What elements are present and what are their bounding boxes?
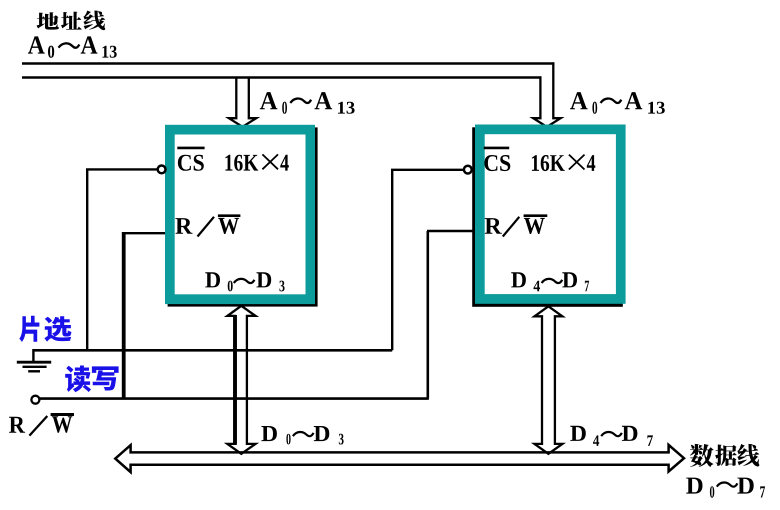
label chip1 R/W	[175, 218, 239, 234]
label chip2 CS	[484, 155, 510, 171]
memory chip U2 body 16Kx4	[475, 125, 626, 304]
label data bus D4~D7	[570, 426, 653, 446]
label chip2 CS overline	[484, 147, 509, 150]
memory chip U1 body 16Kx4	[165, 125, 315, 304]
wire chip1 R/W stub	[123, 232, 166, 234]
label chip1 CS	[178, 155, 204, 171]
label chip2 R/W	[485, 218, 545, 234]
label chip-select (Chinese, blue)	[19, 316, 39, 342]
label address-lines title (Chinese)	[37, 12, 59, 29]
node R/W input terminal circle	[31, 396, 39, 404]
wire data bus double arrow	[115, 445, 684, 472]
wire chip-select horizontal net	[33, 349, 392, 352]
wire address bus line 2	[22, 76, 541, 78]
memory chip U2 shadow	[472, 127, 623, 306]
wire chip1 R/W vertical thick	[122, 232, 126, 399]
memory chip U1 shadow	[168, 127, 318, 306]
label address lines A0~A13 top-left	[28, 36, 117, 57]
label D0~D7 bottom-right	[686, 478, 765, 498]
label chip1 16Kx4	[225, 155, 288, 171]
label R/W bottom-left	[9, 416, 72, 433]
node chip1 CS bubble	[158, 166, 166, 174]
label chip1 A0~A13	[260, 92, 355, 114]
label chip2 A0~A13	[570, 92, 665, 114]
node chip2 CS bubble	[464, 166, 472, 174]
ground	[17, 349, 51, 371]
label chip1 CS overline	[177, 147, 204, 150]
label data-lines title (Chinese)	[690, 444, 714, 467]
label chip2 16Kx4	[532, 155, 595, 171]
wire read-write horizontal net	[40, 397, 429, 400]
wire chip2 R/W vertical	[426, 231, 429, 399]
label chip1 D0~D3	[205, 272, 284, 291]
wire chip1 CS net	[87, 169, 157, 350]
wire chip1 address drop with open arrow	[229, 77, 256, 127]
wire address bus line 1	[22, 62, 554, 64]
wire chip2 data double-arrow	[535, 306, 563, 454]
wire chip2 CS net	[392, 170, 463, 350]
wire chip2 address drop with open arrow	[533, 62, 560, 126]
wire chip2 R/W stub	[427, 230, 475, 232]
label read-write (Chinese, blue)	[65, 366, 91, 393]
wire chip1 data double-arrow	[227, 306, 255, 454]
wire chip1 data arrow thick left line	[233, 315, 237, 445]
label data bus D0~D3	[261, 426, 343, 445]
label chip2 D4~D7	[511, 272, 589, 291]
